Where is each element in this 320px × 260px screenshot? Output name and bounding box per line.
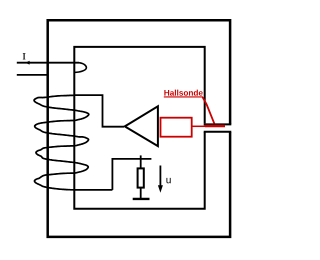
resistor top lead: [140, 159, 142, 169]
air gap top edge: [204, 123, 232, 125]
leader line from label to hall probe: [203, 97, 215, 123]
underline of label Hallsonde: [164, 96, 203, 98]
label I: [23, 53, 25, 59]
air gap bottom edge: [204, 131, 232, 133]
magnetic core outer boundary: [48, 20, 230, 237]
resistor bottom lead: [140, 188, 142, 198]
primary conductor upper segment (current I in): [17, 62, 79, 64]
current direction arrowhead on I wire: [25, 61, 29, 65]
ground bar: [133, 198, 150, 200]
op-amp amplifier triangle: [125, 106, 158, 146]
magnetic core inner boundary (window): [74, 47, 204, 209]
measuring resistor R: [138, 168, 144, 187]
label u: [166, 178, 170, 183]
red wire: box to hall probe: [192, 125, 207, 127]
primary conductor lower (return) segment: [17, 74, 48, 76]
junction stub above resistor: [140, 155, 142, 159]
hall probe electronics box (red): [161, 118, 192, 137]
primary conductor half-turn arc around left limb: [74, 63, 86, 73]
Hall probe (red bar in core air gap): [205, 125, 225, 128]
wire: secondary winding top to amplifier input: [74, 95, 124, 127]
wire: secondary winding bottom to measuring resistor: [112, 159, 151, 190]
secondary compensation winding (coil): [34, 95, 112, 190]
voltage arrow u (pointing down): [159, 166, 161, 187]
label Hallsonde: [164, 90, 202, 96]
